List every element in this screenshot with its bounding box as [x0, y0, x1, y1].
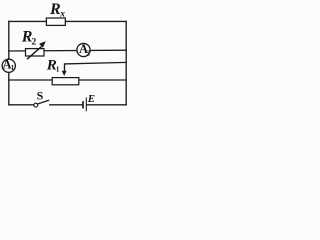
arrow of rheostat R2 — [27, 47, 42, 60]
ammeter A1 — [2, 59, 15, 72]
svg-text:1: 1 — [56, 65, 60, 74]
wire bottom left segment to switch — [9, 104, 34, 106]
resistor R2 (rheostat) — [26, 49, 45, 56]
wire left vertical — [8, 21, 10, 104]
wiper arrow of R1 — [62, 71, 67, 76]
resistor Rx — [46, 18, 65, 25]
wire wiper of R1 to right vertical — [65, 62, 127, 72]
ammeter A2 — [77, 43, 90, 56]
wire R1 branch — [9, 79, 126, 81]
resistor R1 (potentiometer track) — [52, 78, 79, 85]
svg-text:1: 1 — [11, 64, 15, 72]
switch S pivot — [34, 103, 38, 107]
wire top — [9, 20, 126, 22]
svg-text:R: R — [49, 1, 61, 18]
svg-text:E: E — [87, 93, 95, 105]
battery E short plate — [82, 101, 84, 108]
wire bottom middle segment switch to battery — [50, 104, 82, 106]
svg-text:x: x — [59, 10, 65, 20]
svg-text:2: 2 — [32, 38, 37, 48]
svg-text:2: 2 — [87, 49, 91, 57]
svg-text:S: S — [37, 88, 44, 102]
wire right vertical — [125, 21, 127, 104]
switch S lever — [38, 100, 50, 104]
battery E long plate — [85, 97, 87, 111]
wire bottom right segment battery to right vertical — [87, 104, 126, 106]
wire middle branch R2 to A2 — [9, 49, 126, 52]
